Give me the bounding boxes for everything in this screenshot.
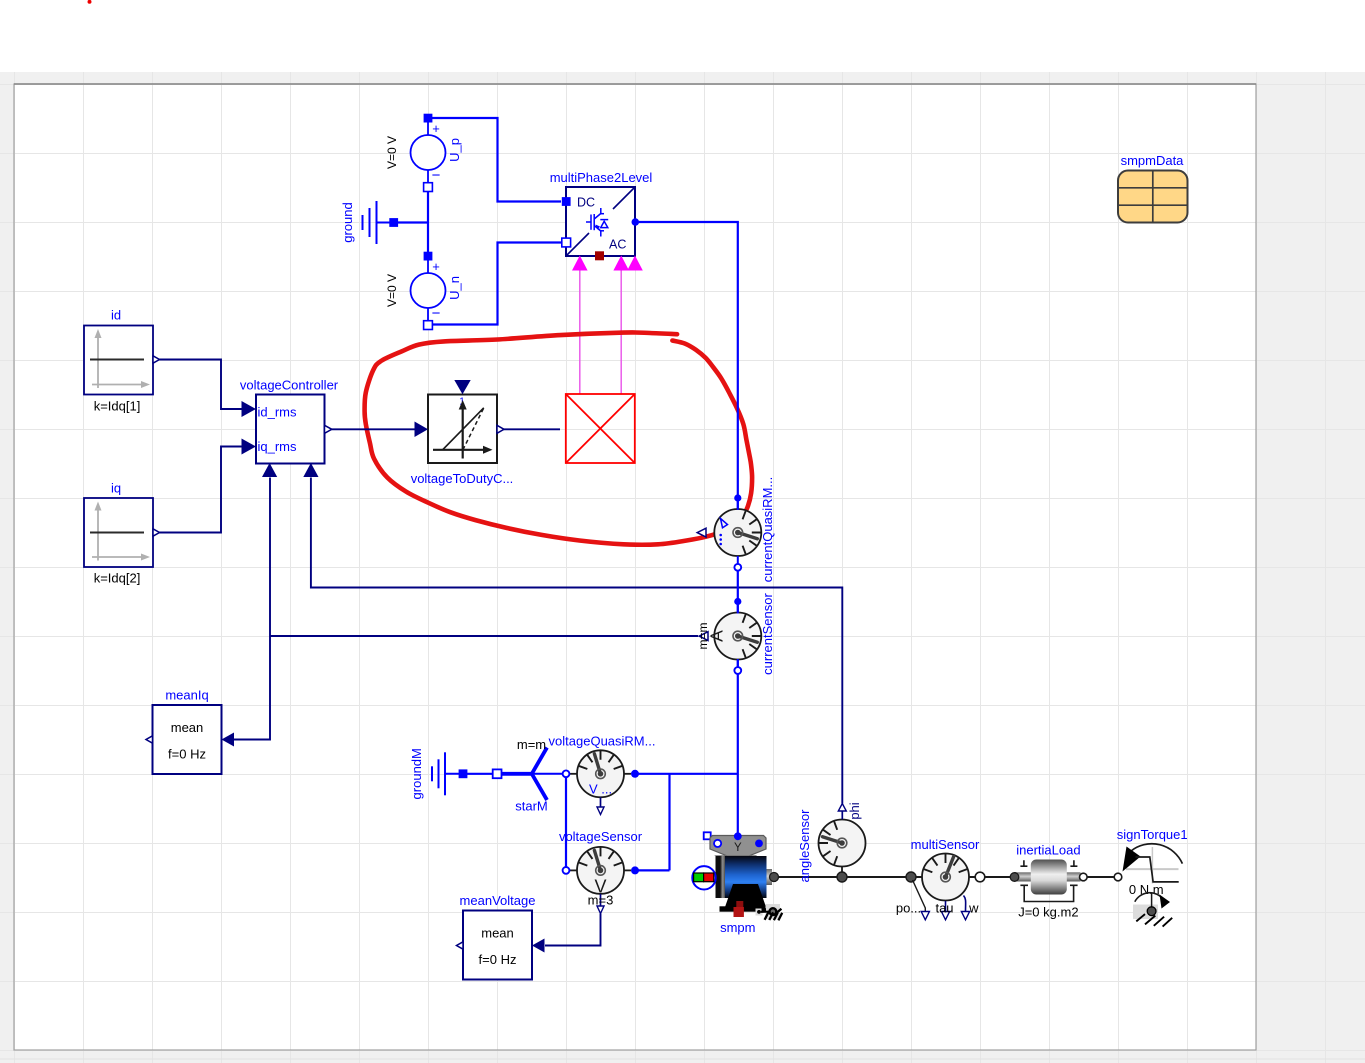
smpm fixed support — [756, 904, 783, 920]
source block iq — [84, 481, 160, 586]
svg-text:po...: po... — [896, 901, 921, 916]
smpm machine — [704, 832, 779, 935]
svg-text:V ...: V ... — [589, 782, 612, 797]
svg-text:+: + — [432, 259, 440, 274]
wire iq to voltageController.iq_rms — [159, 447, 243, 533]
wire Up.p to multiPhase2Level DC+ — [428, 118, 561, 202]
svg-text:k=Idq[1]: k=Idq[1] — [94, 399, 141, 414]
svg-text:currentSensor: currentSensor — [760, 593, 775, 675]
svg-text:smpm: smpm — [720, 920, 755, 935]
svg-text:signTorque1: signTorque1 — [1117, 827, 1188, 842]
wire multiPhase2Level AC to currentQuasiRMSSensor — [639, 222, 738, 509]
angleSensor — [797, 802, 866, 882]
svg-text:voltageController: voltageController — [240, 378, 339, 393]
gate arrow T3 — [627, 256, 643, 271]
fire_p gate arrow T1 — [572, 256, 588, 271]
wire angleSensor phi feedback — [311, 478, 842, 804]
node junction above currentQuasiRMSSensor — [734, 494, 741, 501]
canvas top border accent — [14, 83, 1256, 85]
svg-text:iq_rms: iq_rms — [258, 439, 298, 454]
wire voltageController out to voltageToDutyCycle in — [332, 428, 416, 430]
svg-text:m=3: m=3 — [588, 893, 614, 908]
svg-text:DC: DC — [577, 196, 595, 210]
svg-text:id_rms: id_rms — [258, 405, 298, 420]
meanVoltage block — [457, 893, 545, 980]
wire voltageSensor to meanVoltage — [545, 914, 601, 946]
multiPhase2Level converter U1 — [562, 187, 639, 256]
svg-text:inertiaLoad: inertiaLoad — [1016, 843, 1080, 858]
svg-text:meanVoltage: meanVoltage — [460, 893, 536, 908]
fire_n signal wire — [620, 271, 622, 394]
svg-text:AC: AC — [609, 238, 626, 252]
voltage source U_n — [385, 252, 462, 330]
svg-text:multiPhase2Level: multiPhase2Level — [550, 170, 653, 185]
voltageController block — [240, 378, 339, 478]
red hand-drawn scribble annotation — [365, 332, 753, 544]
signTorque1 — [1114, 827, 1187, 897]
wire voltageSensor right port — [635, 869, 670, 871]
wire id to voltageController.id_rms — [159, 360, 243, 410]
svg-text:f=0 Hz: f=0 Hz — [168, 747, 206, 762]
mechanical shaft wire smpm to inertiaLoad — [776, 876, 1114, 878]
wire currentQuasiRMSSensor to currentSensor — [737, 564, 739, 613]
svg-text:−: − — [432, 167, 441, 184]
svg-text:mean: mean — [481, 926, 514, 941]
meanIq block — [146, 688, 234, 775]
svg-text:V=0 V: V=0 V — [385, 136, 399, 169]
wire voltageToDutyCycle out to deleted block — [504, 428, 561, 430]
svg-text:k=Idq[2]: k=Idq[2] — [94, 571, 141, 586]
svg-text:angleSensor: angleSensor — [797, 809, 812, 883]
svg-text:+: + — [432, 121, 440, 136]
currentQuasiRMSSensor — [697, 477, 775, 582]
svg-text:U_n: U_n — [447, 276, 462, 300]
dutyCycle pin (dark red square) — [595, 251, 604, 260]
ground — [340, 201, 398, 244]
stray red dot — [88, 0, 92, 4]
IGBT glyph inside U1 — [586, 208, 608, 237]
svg-text:−: − — [432, 305, 441, 322]
currentSensor — [696, 593, 775, 675]
svg-text:mean: mean — [171, 720, 204, 735]
svg-text:J=0 kg.m2: J=0 kg.m2 — [1018, 905, 1078, 920]
svg-text:smpmData: smpmData — [1121, 153, 1185, 168]
voltage source U_p — [385, 114, 462, 192]
groundM — [409, 748, 467, 799]
voltageSensor — [559, 829, 643, 914]
source block id — [84, 308, 160, 414]
smpmData record — [1118, 153, 1188, 223]
svg-text:id: id — [111, 308, 121, 323]
svg-text:w: w — [968, 901, 979, 916]
svg-text:iq: iq — [111, 481, 121, 496]
fire_p signal wire — [579, 271, 581, 394]
wire currentSensor m=m feedback — [270, 635, 698, 637]
wire voltageQuasiRMSSensor tap — [635, 773, 738, 775]
inertiaLoad — [1010, 843, 1087, 920]
starM — [493, 737, 563, 814]
svg-text:ground: ground — [340, 202, 355, 242]
svg-text:phi: phi — [847, 802, 862, 819]
fire_n gate arrow T2 — [613, 256, 629, 271]
wire starM to voltageQuasiRMSSensor port — [565, 778, 567, 868]
svg-text:m=m: m=m — [517, 737, 546, 752]
svg-text:m=m: m=m — [696, 622, 710, 649]
svg-text:voltageSensor: voltageSensor — [559, 829, 643, 844]
smpm plug connector — [692, 866, 715, 889]
svg-text:currentQuasiRM...: currentQuasiRM... — [760, 477, 775, 582]
scrollbar seam — [0, 1058, 1365, 1060]
svg-text:voltageQuasiRM...: voltageQuasiRM... — [549, 734, 656, 749]
svg-text:multiSensor: multiSensor — [911, 837, 980, 852]
voltageToDutyCycle block — [411, 380, 514, 486]
svg-text:starM: starM — [515, 799, 548, 814]
voltageQuasiRMSSensor — [549, 734, 656, 815]
svg-text:U_p: U_p — [447, 138, 462, 162]
wire branch down to voltageSensor — [668, 774, 670, 871]
wire current feedback branch to voltageController and meanIq — [234, 478, 271, 740]
svg-text:meanIq: meanIq — [165, 688, 208, 703]
wire Un.n to multiPhase2Level DC- — [428, 243, 561, 325]
svg-text:tau: tau — [935, 901, 953, 916]
svg-text:V=0 V: V=0 V — [385, 274, 399, 307]
svg-text:Y: Y — [734, 842, 742, 854]
signTorque1 fixed support — [1133, 893, 1172, 927]
multiSensor — [896, 837, 985, 920]
wire groundM to starM — [467, 773, 493, 775]
wire Up.n to Un.p — [427, 187, 429, 256]
wire ground to midpoint node — [394, 221, 428, 223]
wire currentSensor to smpm plugSupply — [737, 659, 739, 835]
wire inertiaLoad to signTorque1 — [1087, 876, 1114, 878]
node junction above currentSensor — [734, 598, 741, 605]
deleted block (red X placeholder) — [566, 394, 635, 463]
svg-text:voltageToDutyC...: voltageToDutyC... — [411, 471, 514, 486]
svg-text:f=0 Hz: f=0 Hz — [479, 952, 517, 967]
svg-text:groundM: groundM — [409, 748, 424, 799]
